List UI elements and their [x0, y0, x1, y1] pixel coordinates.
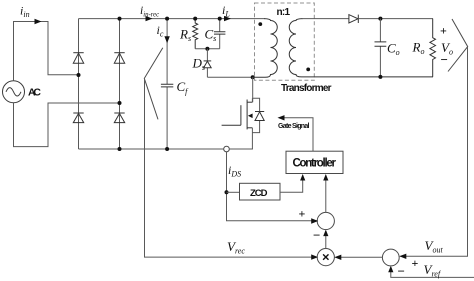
arrow gate signal	[278, 115, 285, 120]
wire ZCD to controller	[280, 176, 303, 193]
svg-text:Cs: Cs	[205, 27, 217, 43]
multiplier M1 circle	[317, 249, 334, 266]
wire Vrec sense down	[145, 78, 318, 257]
resistor Ro	[430, 19, 436, 77]
svg-text:Ro: Ro	[412, 40, 425, 56]
probe Vrec sense (angle bracket)	[144, 48, 163, 120]
svg-text:+: +	[440, 24, 447, 38]
block Controller	[286, 151, 343, 173]
node ids tap (open)	[224, 146, 230, 152]
svg-text:Cf: Cf	[177, 79, 190, 96]
wire Vref	[391, 267, 474, 277]
summer S2 (error) circle	[382, 249, 399, 266]
arrow into controller (summer)	[323, 174, 328, 181]
node Co bottom	[378, 75, 382, 79]
capacitor Co	[379, 19, 381, 77]
node Cf top	[165, 17, 169, 21]
transformer primary winding	[253, 19, 278, 78]
wire ids sense down	[227, 152, 318, 221]
summer S1 circle	[317, 212, 334, 229]
node ids-ZCD junction	[225, 190, 229, 194]
svg-text:Co: Co	[387, 41, 400, 57]
probe Vout sense (angle bracket)	[448, 19, 468, 72]
svg-text:−: −	[313, 228, 320, 243]
wire to ZCD	[227, 191, 240, 193]
svg-text:Rs: Rs	[179, 27, 191, 43]
svg-text:AC: AC	[28, 87, 41, 99]
arrow into summer from ids	[311, 218, 318, 223]
wire gate signal	[279, 118, 313, 151]
arrow into error summer from Vout	[399, 254, 406, 259]
arrow into summer from multiplier	[323, 230, 328, 237]
arrow i_in	[35, 19, 42, 24]
svg-text:Ds: Ds	[192, 56, 206, 72]
svg-text:iL: iL	[222, 3, 230, 19]
node top rail bridge right	[118, 17, 122, 21]
diode D4 (bridge lower-right)	[114, 113, 124, 123]
svg-text:iin: iin	[20, 4, 30, 20]
svg-text:Transformer: Transformer	[281, 83, 332, 94]
block ZCD	[240, 183, 281, 200]
svg-text:n:1: n:1	[277, 7, 291, 18]
arrow into multiplier from Vrec	[311, 254, 318, 259]
svg-text:ic: ic	[157, 23, 164, 39]
MOSFET Q1	[222, 100, 253, 130]
node snubber mid	[205, 47, 209, 51]
wire secondary top to output	[302, 18, 349, 20]
svg-text:iin-rec: iin-rec	[140, 5, 160, 18]
wire error summer to multiplier	[336, 256, 383, 258]
node primary polarity dot	[258, 22, 262, 26]
node Co top	[378, 17, 382, 21]
AC source V1	[3, 81, 25, 103]
wire output rail	[358, 18, 433, 20]
capacitor Cf branch wires	[166, 19, 168, 149]
arrow i_c	[164, 36, 169, 43]
node Rs top	[193, 17, 197, 21]
bridge right column wire	[119, 19, 121, 149]
node bottom rail bridge right	[118, 147, 122, 151]
resistor Rs	[193, 19, 198, 49]
node bridge right mid	[118, 101, 122, 105]
node primary bottom	[251, 75, 255, 79]
svg-text:Vout: Vout	[425, 238, 444, 254]
wire AC top to bridge left mid-node	[14, 22, 79, 81]
wire bottom rail (primary side)	[79, 148, 253, 150]
diode D2 (bridge upper-right)	[114, 53, 124, 64]
svg-text:−: −	[441, 52, 448, 67]
wire drain vertical	[251, 98, 253, 102]
arrow i_L	[224, 16, 231, 21]
svg-text:Vref: Vref	[424, 262, 442, 278]
multiplier X symbol	[323, 254, 328, 259]
wire Ds to primary bottom	[207, 76, 252, 78]
diode D6 (body diode)	[252, 98, 259, 132]
wire top rail	[79, 18, 265, 20]
wire MOSFET source to bottom rail	[251, 128, 253, 149]
svg-text:ZCD: ZCD	[250, 188, 268, 199]
svg-text:+: +	[299, 207, 306, 221]
node bridge left mid	[77, 73, 81, 77]
MOSFET Q1 drain wire	[252, 77, 254, 102]
arrow into multiplier from error	[334, 255, 341, 260]
svg-text:+: +	[412, 256, 419, 270]
node Cf bottom	[165, 147, 169, 151]
diode D1 (bridge upper-left)	[73, 53, 83, 64]
wire summer to controller	[325, 176, 327, 213]
MOSFET body arrow	[248, 114, 253, 119]
wire AC bottom to bridge right mid-node	[14, 103, 120, 147]
wire Vout sense down	[400, 47, 467, 257]
wire multiplier to summer	[325, 231, 327, 249]
transformer T1 dashed box	[255, 3, 315, 80]
transformer secondary winding	[289, 19, 433, 77]
diode Ds	[206, 49, 208, 77]
svg-text:Gate Signal: Gate Signal	[278, 123, 310, 130]
arrow into error summer from Vref	[388, 266, 393, 273]
node secondary polarity dot	[306, 68, 310, 72]
arrow i_in-rec	[146, 16, 153, 21]
arrow into controller (ZCD)	[300, 174, 305, 181]
capacitor Cf plates	[161, 84, 173, 87]
svg-text:Vrec: Vrec	[227, 239, 245, 255]
capacitor Cs	[219, 19, 221, 49]
node Cs top	[218, 17, 222, 21]
svg-text:−: −	[398, 264, 405, 279]
diode D3 (bridge lower-left)	[73, 113, 83, 123]
wire RC bottom bar	[195, 48, 220, 50]
svg-text:Controller: Controller	[293, 158, 337, 170]
bridge left column wire	[78, 19, 80, 149]
diode D5 (output)	[349, 15, 358, 23]
svg-text:iDS: iDS	[228, 163, 241, 179]
